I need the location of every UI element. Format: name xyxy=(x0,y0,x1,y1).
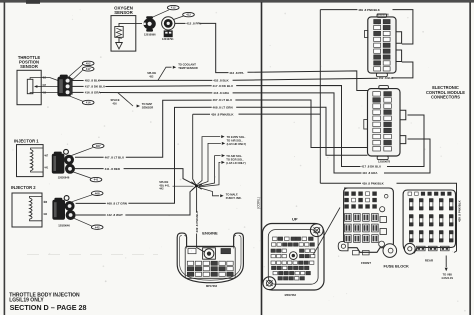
svg-text:FUSE BLOCK: FUSE BLOCK xyxy=(384,263,409,268)
svg-text:439 .8 PNK/BLK: 439 .8 PNK/BLK xyxy=(362,182,385,186)
node label 417 oval xyxy=(82,67,94,71)
svg-text:TO MALF.: TO MALF. xyxy=(226,192,239,196)
oxygen sensor internal wire xyxy=(119,23,142,27)
svg-text:416 .8 GRA: 416 .8 GRA xyxy=(213,91,230,95)
svg-text:SECTION D – PAGE 28: SECTION D – PAGE 28 xyxy=(10,303,87,312)
svg-text:TO EGR SOL.: TO EGR SOL. xyxy=(226,158,244,162)
wire 439 drop to splice xyxy=(193,114,197,185)
engine connector pin field frame xyxy=(185,246,235,278)
svg-text:FUNCT. IND.: FUNCT. IND. xyxy=(226,196,242,200)
page top border band xyxy=(0,0,474,3)
wire 439 splice to engine connector xyxy=(197,187,205,252)
svg-text:MR17263: MR17263 xyxy=(285,293,297,297)
wire 439 segment stack right xyxy=(239,113,321,115)
engine connector inner rim xyxy=(180,236,241,281)
oxygen sensor element xyxy=(115,27,123,39)
wire 416 segment c xyxy=(233,93,362,173)
fuse block front small contacts xyxy=(345,192,379,243)
wire 412 segment a xyxy=(175,22,186,24)
svg-text:452: 452 xyxy=(86,62,91,66)
up connector inner rim xyxy=(268,230,318,285)
leader oval416 xyxy=(66,95,82,101)
wire 441 segment b xyxy=(124,169,197,186)
injector 2 connector 12020646 xyxy=(52,196,75,220)
splice branch to EGR solenoid xyxy=(199,162,221,187)
splice node 439/441/442 xyxy=(191,182,202,190)
up connector center boss xyxy=(289,252,297,260)
svg-text:416: 416 xyxy=(86,101,91,105)
ecm connector 2 pins xyxy=(373,92,392,151)
node label 467 oval xyxy=(92,144,104,148)
svg-text:467 .8 LT BLU: 467 .8 LT BLU xyxy=(213,98,233,102)
oxygen sensor box xyxy=(111,16,136,52)
fuse block rear left ear xyxy=(404,243,415,254)
oxygen harness connector 12010791 xyxy=(162,17,175,37)
wire 467 segment a xyxy=(75,156,104,158)
svg-text:12010096: 12010096 xyxy=(144,33,156,37)
tps potentiometer xyxy=(27,78,41,94)
tps connector xyxy=(57,75,72,97)
svg-text:467 .8 LT BLU: 467 .8 LT BLU xyxy=(105,155,125,159)
wire 417 segment c xyxy=(236,86,360,167)
wire 439 bottom segment a xyxy=(320,182,361,184)
svg-text:468 .8 LT GRN: 468 .8 LT GRN xyxy=(213,105,233,109)
faint fold line xyxy=(27,254,158,256)
wire 439 bottom segment b xyxy=(397,183,457,252)
node label 468 oval xyxy=(91,191,103,195)
svg-text:417: 417 xyxy=(86,67,91,71)
svg-text:SENSOR: SENSOR xyxy=(142,106,153,110)
node label 416 oval xyxy=(82,100,94,104)
tps leads to connector xyxy=(41,78,57,93)
wire 441 segment a xyxy=(75,168,104,170)
svg-text:TEMP SENSOR: TEMP SENSOR xyxy=(178,66,198,70)
svg-text:452: 452 xyxy=(149,75,154,78)
splice leader to label xyxy=(173,185,194,187)
splice branch to AIR solenoid (HD) xyxy=(198,143,221,185)
splice 452 branch to coolant temp sensor xyxy=(158,67,172,80)
svg-text:TO AIR SOL.: TO AIR SOL. xyxy=(227,139,243,143)
svg-text:TO EVRV SOL.: TO EVRV SOL. xyxy=(227,135,246,139)
wire 439 segment to splice xyxy=(193,113,210,115)
node label 442 oval xyxy=(91,225,103,229)
oxygen sensor connector 12010096 xyxy=(143,16,155,31)
svg-text:MP17262: MP17262 xyxy=(206,284,218,288)
svg-text:442: 442 xyxy=(159,188,164,191)
leader oval412b to connector xyxy=(174,16,184,20)
leader oval417 xyxy=(68,70,82,84)
splice branch to EVRV solenoid xyxy=(198,137,221,185)
svg-text:INJECTOR 2: INJECTOR 2 xyxy=(11,185,36,190)
fuse block front right ear xyxy=(383,244,397,258)
svg-text:4.0S/4.1S: 4.0S/4.1S xyxy=(441,276,453,280)
svg-text:412 .8 PPL: 412 .8 PPL xyxy=(229,71,244,75)
svg-text:417 .8 DK BLU: 417 .8 DK BLU xyxy=(361,165,381,169)
svg-text:FRONT: FRONT xyxy=(361,261,371,265)
svg-text:416: 416 xyxy=(113,103,118,106)
ecm connector 1 pins xyxy=(374,20,390,72)
up connector bolt ear bottom left xyxy=(263,277,276,290)
injector 2 box xyxy=(12,193,42,227)
oxygen sensor ground xyxy=(116,37,123,49)
up connector bolt ear top right xyxy=(310,224,323,237)
svg-text:442 .8 WHT: 442 .8 WHT xyxy=(107,213,123,217)
splice branch to malf funct ind xyxy=(198,187,219,196)
svg-text:412 .8 PPL: 412 .8 PPL xyxy=(186,22,201,26)
wire 442 segment b xyxy=(125,186,196,215)
wire 442 segment a xyxy=(76,214,106,216)
splice 416 branch to map sensor xyxy=(118,93,133,106)
ecm connector 2 body xyxy=(364,86,406,160)
fuse block rear outline xyxy=(403,190,455,253)
wire 416 segment a xyxy=(71,91,83,93)
svg-text:(LG5 HD ONLY): (LG5 HD ONLY) xyxy=(227,142,247,146)
up connector outer body xyxy=(263,224,325,291)
tps box xyxy=(17,70,41,104)
engine connector outline xyxy=(177,233,243,283)
wire 417 segment a xyxy=(71,85,83,87)
svg-text:439 .8 PNK/BLK: 439 .8 PNK/BLK xyxy=(211,112,234,116)
svg-text:417 .8 DK BLU: 417 .8 DK BLU xyxy=(85,85,106,89)
leader oval441 xyxy=(72,172,91,179)
svg-text:452 .8 BLK: 452 .8 BLK xyxy=(85,79,101,83)
wire 468 segment c xyxy=(236,107,367,155)
svg-text:INJECTOR 1: INJECTOR 1 xyxy=(14,139,39,144)
wire 452 segment d xyxy=(392,62,413,78)
svg-text:468 .8 LT GRN: 468 .8 LT GRN xyxy=(107,201,127,205)
svg-text:417 .8 DK BLU: 417 .8 DK BLU xyxy=(213,84,234,88)
svg-text:468: 468 xyxy=(95,191,100,195)
node label 412 oval b xyxy=(183,12,195,16)
svg-text:TO V88: TO V88 xyxy=(443,273,453,277)
svg-text:442: 442 xyxy=(95,225,100,229)
svg-text:452 .8 BLK: 452 .8 BLK xyxy=(213,79,229,83)
svg-text:(LG5 LD ONLY): (LG5 LD ONLY) xyxy=(226,161,245,165)
svg-text:441: 441 xyxy=(94,178,99,182)
page left border xyxy=(4,2,6,315)
fuse block rear top contacts xyxy=(408,192,453,251)
svg-text:TO MAP: TO MAP xyxy=(142,102,153,106)
injector 1 connector 12020646 xyxy=(52,149,75,173)
wire 439 top segment b xyxy=(393,10,413,44)
wire 439 trunk vertical xyxy=(319,10,321,184)
svg-text:REAR: REAR xyxy=(425,258,434,262)
leader oval452 xyxy=(66,65,83,80)
injector 1 box xyxy=(17,145,44,177)
leader fuse block to up connector pin xyxy=(313,208,340,255)
leader oval442 xyxy=(73,218,92,226)
svg-text:TO COOLANT: TO COOLANT xyxy=(178,62,196,66)
wire 417 segment b xyxy=(105,85,211,88)
splice branch to AIR solenoid (LD) xyxy=(199,156,221,187)
up connector pins xyxy=(271,237,315,280)
wire 412 segment c xyxy=(248,71,368,91)
leader oval467 xyxy=(72,148,93,156)
fuse block front right column details xyxy=(353,194,389,255)
arrow to V88 xyxy=(445,256,447,268)
wire 416 segment d xyxy=(384,139,430,173)
svg-text:SENSOR: SENSOR xyxy=(114,10,133,15)
engine connector boss pad xyxy=(203,248,216,259)
svg-text:412: 412 xyxy=(171,6,176,10)
svg-text:439 .8 PNK/BLK: 439 .8 PNK/BLK xyxy=(195,210,199,233)
svg-text:441 .8 RED: 441 .8 RED xyxy=(105,167,121,171)
node label 452 oval xyxy=(82,61,94,65)
wire 467 segment b xyxy=(126,100,212,157)
wire 412 segment b xyxy=(200,23,229,72)
wire 467 segment c xyxy=(235,100,367,148)
wire 417 segment d xyxy=(387,115,424,167)
wire 468 segment b xyxy=(128,107,211,203)
svg-text:TO AIR SOL.: TO AIR SOL. xyxy=(226,154,242,158)
svg-text:UP: UP xyxy=(292,216,298,221)
injector 2 coil xyxy=(30,196,43,220)
wire 452 segment a xyxy=(71,80,83,82)
leader oval412a to connector xyxy=(153,10,169,17)
svg-text:12020646: 12020646 xyxy=(58,175,70,179)
svg-text:12020678: 12020678 xyxy=(378,160,390,164)
svg-text:12020646: 12020646 xyxy=(58,224,70,228)
page right border xyxy=(469,2,471,315)
wire 452 segment c xyxy=(233,78,378,80)
wire 452 segment b xyxy=(100,79,213,81)
svg-text:467: 467 xyxy=(96,144,101,148)
svg-text:412: 412 xyxy=(186,13,191,17)
svg-text:416 .8 GRA: 416 .8 GRA xyxy=(85,91,102,95)
svg-text:(COWL): (COWL) xyxy=(256,197,260,209)
cowl divider line xyxy=(261,2,263,315)
wire 468 segment a xyxy=(76,202,106,204)
svg-text:439 .8 PNK/BLK: 439 .8 PNK/BLK xyxy=(358,8,381,12)
svg-text:ENGINE: ENGINE xyxy=(202,230,218,235)
svg-text:439 .8 PNK/BLK: 439 .8 PNK/BLK xyxy=(458,199,462,222)
injector 1 coil xyxy=(31,148,44,172)
engine connector pins xyxy=(187,249,233,277)
engine connector boss xyxy=(204,249,214,259)
leader oval468 xyxy=(72,195,92,202)
node label 412 oval a xyxy=(167,5,179,9)
ecm connector 1 body xyxy=(365,14,402,77)
node label 441 oval xyxy=(90,177,102,181)
svg-text:12010791: 12010791 xyxy=(162,37,174,41)
svg-text:CONNECTORS: CONNECTORS xyxy=(431,95,460,100)
wire 416 segment b xyxy=(100,92,213,94)
wire 439 top segment a xyxy=(320,9,357,11)
fuse block front left tab xyxy=(338,242,348,251)
fuse block front outline xyxy=(344,188,394,252)
svg-text:SENSOR: SENSOR xyxy=(20,64,38,69)
svg-text:416 .8 GRA: 416 .8 GRA xyxy=(362,171,378,175)
